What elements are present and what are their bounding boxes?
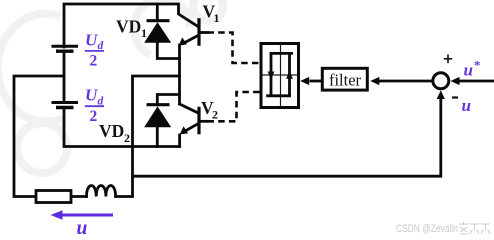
label plus <box>444 55 453 64</box>
filter block <box>322 68 367 90</box>
wire cap bottom to bridge bottom rail <box>64 108 180 147</box>
label VD2 <box>99 121 130 145</box>
label u* <box>464 58 481 80</box>
wire V2 emitter corner <box>178 135 181 147</box>
diode VD2 <box>144 105 171 128</box>
summing junction circle <box>433 73 449 89</box>
transistor V2 gate lead <box>201 120 208 123</box>
svg-text:CSDN @Zevalin: CSDN @Zevalin <box>396 223 458 235</box>
transistor V2 collector diagonal <box>180 104 198 113</box>
transistor V2 bar <box>197 108 200 132</box>
wire u* input with arrow <box>459 80 494 83</box>
label Ud/2 upper <box>85 30 104 69</box>
wire filter to hysteresis with arrow <box>310 80 322 83</box>
inductor L <box>87 186 116 197</box>
transistor V2 emitter <box>184 124 198 132</box>
transistor V1 gate lead <box>201 31 208 34</box>
transistor V1 emitter arrowhead <box>179 37 187 45</box>
wire bridge midpoint trunk <box>178 45 181 104</box>
wire VD2 cathode jog <box>157 95 179 105</box>
transistor V1 emitter <box>184 36 198 43</box>
wire capacitor mid column <box>63 51 66 103</box>
label VD1 <box>116 17 147 40</box>
wire VD1 cathode lead <box>156 4 159 21</box>
wire circle to filter with arrow <box>378 80 433 83</box>
wire capacitor midpoint tap <box>14 76 64 197</box>
wire VD2 anode lead <box>156 128 159 147</box>
hysteresis comparator block <box>261 44 299 108</box>
wire resistor to inductor <box>71 195 87 198</box>
capacitor C2 <box>52 103 79 108</box>
wire VD1 anode jog <box>157 42 179 59</box>
wire inductor to load vertical <box>116 76 180 197</box>
transistor V1 bar <box>197 20 200 44</box>
wire top rail + V1 collector <box>64 4 198 47</box>
capacitor C1 <box>52 46 79 51</box>
wire feedback <box>133 98 441 176</box>
diode VD1 <box>144 21 171 43</box>
dashed gate wire V1 <box>208 33 260 64</box>
resistor R load <box>36 191 71 203</box>
label Ud/2 lower <box>85 86 104 125</box>
arrow u (load voltage) <box>60 214 113 217</box>
label minus <box>452 96 458 98</box>
transistor V2 emitter arrowhead <box>180 126 188 134</box>
label V2 <box>201 98 218 121</box>
dashed gate wire V2 <box>208 92 260 121</box>
faint background watermark <box>0 0 223 173</box>
label V1 <box>203 2 220 25</box>
